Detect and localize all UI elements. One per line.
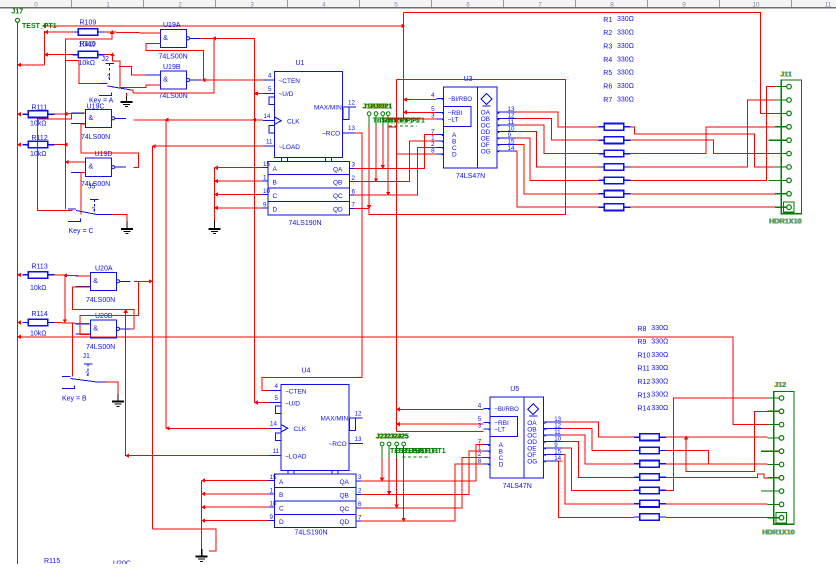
wire R109 R110 feed	[18, 64, 45, 66]
svg-text:R8: R8	[638, 326, 647, 333]
svg-text:J17: J17	[12, 9, 24, 16]
pin 1 B U1	[262, 180, 268, 182]
svg-text:3: 3	[431, 113, 435, 120]
svg-text:U3: U3	[464, 76, 473, 83]
svg-text:A: A	[273, 166, 278, 173]
wire U1 LOAD feed	[152, 145, 263, 147]
resistor R10	[634, 463, 639, 465]
wire QD U4 to D U5	[361, 464, 483, 521]
svg-text:10kΩ: 10kΩ	[30, 285, 47, 292]
svg-text:~LOAD: ~LOAD	[285, 453, 307, 460]
wire QB U4 to B U5	[361, 451, 483, 495]
wire OF to R6	[516, 144, 598, 193]
wire UD bus	[253, 38, 255, 402]
svg-text:10kΩ: 10kΩ	[30, 120, 47, 127]
svg-text:4: 4	[275, 383, 279, 390]
svg-text:~CTEN: ~CTEN	[279, 78, 301, 85]
wire key B common to ground	[106, 382, 118, 394]
ruler bar	[0, 0, 836, 7]
wire U19A out down loop	[133, 38, 214, 93]
svg-text:QA: QA	[333, 166, 343, 173]
wire R113 R114 link	[64, 275, 66, 322]
wire R13 to J12 pin9	[666, 503, 768, 505]
svg-text:U5: U5	[510, 386, 519, 393]
switch J5 Key=C	[90, 199, 98, 201]
wire R6 to J11 pin9	[631, 193, 776, 195]
svg-text:~RCO: ~RCO	[329, 441, 347, 448]
svg-text:74LS00N: 74LS00N	[159, 54, 188, 61]
wire U3 D feed	[397, 153, 437, 155]
wire R111 to U19C in1	[54, 113, 85, 114]
svg-text:R112: R112	[32, 135, 48, 142]
svg-text:&: &	[163, 77, 168, 84]
svg-text:QC: QC	[340, 506, 350, 513]
svg-text:R1: R1	[603, 17, 612, 24]
svg-text:TEST_PT1: TEST_PT1	[411, 448, 446, 455]
wire LOAD bus bottom	[152, 529, 216, 551]
svg-text:330Ω: 330Ω	[651, 325, 668, 332]
svg-text:R14: R14	[638, 406, 651, 413]
svg-text:R115: R115	[44, 558, 60, 564]
nand U20A	[90, 272, 116, 290]
svg-text:330Ω: 330Ω	[651, 405, 668, 412]
wire TEST_PT1 horizontal	[44, 25, 404, 27]
svg-text:J5: J5	[88, 184, 96, 191]
wire OA2 to R8	[563, 422, 634, 437]
resistor R7	[599, 206, 604, 208]
svg-text:?: ?	[107, 74, 111, 81]
nand U19B	[160, 71, 186, 89]
wire R5 to J11 pin1	[631, 87, 776, 181]
svg-text:10: 10	[270, 501, 277, 508]
wire R4 to J11 pin2	[631, 100, 776, 167]
wire test vertical to U3 pins	[403, 12, 405, 118]
wire left rail	[17, 31, 19, 564]
svg-text:&: &	[89, 115, 94, 122]
wire branch to J2 upper	[65, 59, 79, 61]
svg-text:330Ω: 330Ω	[617, 70, 634, 77]
pin 7 QD U4	[356, 520, 361, 522]
wire R2 to J11 pin6	[631, 140, 776, 153]
svg-text:OG: OG	[527, 459, 537, 466]
svg-text:330Ω: 330Ω	[617, 56, 634, 63]
svg-text:3: 3	[358, 474, 362, 481]
pin 14 CLK U4	[269, 427, 281, 429]
svg-text:R11: R11	[638, 366, 650, 373]
svg-text:~U/D: ~U/D	[279, 91, 294, 98]
wire switch column C	[64, 114, 66, 209]
svg-text:QD: QD	[340, 519, 350, 526]
wire U19B in1 feed	[119, 67, 145, 76]
resistor R9	[634, 450, 639, 452]
pin 15 A U4	[269, 479, 275, 481]
svg-text:D: D	[279, 519, 284, 526]
svg-text:74LS47N: 74LS47N	[503, 483, 532, 490]
wire R3 to J11 pin4	[631, 127, 776, 154]
pin 1 B U4	[269, 493, 275, 495]
pin 4 ~CTEN U4	[269, 390, 281, 392]
svg-text:10kΩ: 10kΩ	[79, 60, 96, 67]
pin 14 CLK U1	[263, 120, 275, 122]
pin 2 QB U4	[356, 493, 361, 495]
svg-text:−LT: −LT	[448, 116, 459, 123]
svg-text:R114: R114	[32, 311, 48, 318]
wire TP4 jog	[388, 126, 396, 128]
svg-text:QD: QD	[333, 207, 343, 214]
wire to U19D in1	[65, 161, 85, 163]
svg-text:R110: R110	[80, 41, 96, 48]
wire LOAD2 branch	[125, 309, 127, 455]
svg-text:5: 5	[268, 86, 272, 93]
wire OG2 to R14	[559, 461, 634, 518]
pin 7 QD U1	[350, 208, 355, 210]
svg-text:R4: R4	[603, 57, 612, 64]
ground key A	[125, 93, 127, 97]
wire QA U1 to A U3	[355, 135, 437, 169]
svg-text:B: B	[279, 492, 283, 499]
svg-text:330Ω: 330Ω	[617, 16, 634, 23]
wire U4 CLK feed	[166, 427, 269, 429]
pin 9 D U1	[262, 207, 268, 209]
wire OA to R1	[516, 112, 598, 127]
svg-text:330Ω: 330Ω	[651, 339, 668, 346]
resistor R3	[599, 153, 604, 155]
svg-text:U19C: U19C	[87, 103, 105, 110]
svg-text:HDR1X10: HDR1X10	[770, 217, 802, 226]
svg-text:Key = C: Key = C	[69, 228, 94, 235]
svg-text:4: 4	[478, 402, 482, 409]
svg-text:&: &	[89, 164, 94, 171]
svg-text:9: 9	[263, 201, 267, 208]
svg-text:R111: R111	[32, 105, 48, 112]
svg-text:J11: J11	[781, 72, 792, 79]
wire U20A out	[134, 280, 152, 282]
pin 10 C U1	[262, 194, 268, 196]
ground U1 bus	[214, 221, 216, 229]
resistor R114	[22, 322, 27, 324]
svg-text:74LS00N: 74LS00N	[86, 344, 115, 351]
svg-text:U1: U1	[296, 60, 305, 67]
svg-text:74LS190N: 74LS190N	[295, 530, 328, 537]
wire R12 to J12 pin1	[666, 398, 768, 491]
wire U3 LT feed	[387, 118, 437, 120]
wire U19B out to U1 CTEN	[201, 79, 263, 81]
wire rail to U5 BI/RBO RBI	[397, 408, 484, 410]
svg-text:U4: U4	[302, 368, 311, 375]
wire OC2 to R10	[563, 435, 634, 464]
resistor R112	[22, 144, 27, 146]
svg-text:12: 12	[355, 410, 362, 417]
svg-text:74LS190N: 74LS190N	[289, 220, 322, 227]
svg-text:&: &	[93, 325, 98, 332]
resistor R5	[599, 179, 604, 181]
svg-text:~CTEN: ~CTEN	[285, 388, 307, 395]
ground key C	[126, 221, 128, 229]
wire OE2 to R12	[563, 448, 634, 491]
nand U20B	[90, 320, 116, 338]
svg-text:?: ?	[85, 371, 89, 378]
pin 9 D U4	[269, 520, 275, 522]
wire U20A out cross to U20B in2	[80, 281, 139, 334]
svg-text:R7: R7	[603, 97, 612, 104]
svg-text:U19B: U19B	[163, 64, 181, 71]
svg-text:330Ω: 330Ω	[617, 83, 634, 90]
resistor R11	[634, 476, 639, 478]
wire OC to R3	[516, 125, 598, 154]
wire R1 to J11 pin7	[631, 127, 776, 167]
svg-text:10kΩ: 10kΩ	[30, 330, 47, 337]
wire R111 loop to key C	[38, 114, 73, 211]
nand U19D	[86, 158, 112, 176]
wire R114 to U20B in1	[54, 323, 90, 324]
wire U4 LOAD feed	[126, 455, 269, 457]
test point J17	[16, 18, 20, 22]
pin 4 ~CTEN U1	[263, 79, 275, 81]
pin 2 QB U1	[350, 181, 355, 183]
resistor R111	[22, 113, 27, 115]
pin 3 QA U1	[350, 167, 355, 169]
svg-text:R3: R3	[603, 44, 612, 51]
svg-text:9: 9	[270, 514, 274, 521]
svg-text:330Ω: 330Ω	[617, 96, 634, 103]
wire rail to R111 R112	[17, 112, 21, 116]
resistor R4	[599, 166, 604, 168]
svg-text:14: 14	[270, 421, 277, 428]
svg-text:5: 5	[275, 395, 279, 402]
pin 6 QC U4	[356, 507, 361, 509]
svg-text:A: A	[279, 479, 284, 486]
wire J2 upper contact	[79, 60, 99, 83]
wire R14 to J12 pin10	[666, 517, 768, 519]
pin 11 ~LOAD U4	[269, 455, 281, 457]
nand U19C	[86, 109, 112, 127]
svg-text:R5: R5	[603, 70, 612, 77]
svg-text:U19A: U19A	[163, 22, 181, 29]
svg-text:R13: R13	[638, 392, 651, 399]
wire U5 LT feed	[397, 431, 484, 433]
svg-text:−BI/RBO: −BI/RBO	[448, 96, 473, 103]
svg-text:R2: R2	[603, 30, 612, 37]
pin 15 A U1	[262, 167, 268, 169]
svg-text:C: C	[273, 193, 278, 200]
svg-text:~RCO: ~RCO	[322, 131, 340, 138]
ground U4 bus	[201, 549, 203, 557]
wire QC U4 to C U5	[361, 457, 483, 508]
wire OB2 to R9	[563, 429, 634, 451]
resistor R109	[73, 31, 78, 33]
svg-text:14: 14	[264, 113, 271, 120]
wire R113 to U20A in1	[54, 275, 90, 276]
svg-text:U20A: U20A	[95, 265, 113, 272]
svg-text:R9: R9	[638, 339, 647, 346]
svg-text:1: 1	[263, 175, 267, 182]
svg-text:HDR1X10: HDR1X10	[763, 528, 795, 537]
svg-text:330Ω: 330Ω	[651, 392, 668, 399]
wire OE to R5	[516, 138, 598, 181]
wire R7 to J11 pin10	[631, 206, 776, 208]
svg-text:QB: QB	[340, 492, 349, 499]
wire J2 common	[131, 90, 134, 93]
svg-text:−LT: −LT	[494, 426, 505, 433]
svg-text:74LS47N: 74LS47N	[456, 173, 485, 180]
wire R11 to J12 pin7	[666, 474, 768, 478]
wire R109 to U19A input	[105, 32, 161, 33]
svg-text:2: 2	[358, 488, 362, 495]
svg-text:4: 4	[431, 92, 435, 99]
wire OF2 to R13	[563, 455, 634, 505]
wire U3 RBI feed	[404, 111, 437, 113]
pin 6 QC U1	[350, 194, 355, 196]
svg-text:11: 11	[266, 139, 273, 146]
wire RCO U1 chain	[262, 133, 362, 391]
svg-text:7: 7	[358, 514, 362, 521]
wire top to J11 pin3	[404, 12, 776, 113]
svg-text:10kΩ: 10kΩ	[30, 151, 47, 158]
svg-text:J2: J2	[102, 56, 110, 63]
pin 11 ~LOAD U1	[263, 145, 275, 147]
svg-text:7: 7	[352, 202, 356, 209]
svg-text:U19D: U19D	[95, 151, 113, 158]
resistor R6	[599, 193, 604, 195]
svg-text:C: C	[279, 506, 284, 513]
svg-text:D: D	[273, 206, 278, 213]
svg-text:CLK: CLK	[294, 426, 307, 433]
wire U19B out to U19A in2 cross	[146, 44, 203, 81]
svg-text:?: ?	[92, 207, 96, 214]
resistor R1	[599, 126, 604, 128]
resistor R110	[73, 54, 78, 56]
wire U19D in2 from switch	[81, 172, 86, 214]
svg-text:3: 3	[352, 162, 356, 169]
wire U19D out loop to U19C in2	[81, 124, 138, 168]
wire R8 rail to J12 pin3	[18, 337, 768, 425]
svg-text:QC: QC	[333, 193, 343, 200]
svg-text:330Ω: 330Ω	[651, 378, 668, 385]
svg-text:13: 13	[355, 436, 362, 443]
svg-text:R6: R6	[603, 84, 612, 91]
wire U4 ABCD bus	[201, 480, 203, 549]
wire R109 down to key A chain	[65, 32, 112, 114]
wire TP stems bottom	[381, 446, 383, 458]
wire R110 chain to U19B in2	[105, 54, 113, 56]
pin 5 ~U/D U4	[269, 402, 281, 404]
wire OD2 to R11	[563, 442, 634, 478]
svg-text:15: 15	[263, 161, 270, 168]
svg-text:6: 6	[352, 188, 356, 195]
svg-text:J21: J21	[381, 103, 393, 110]
wire LOAD bus	[151, 146, 153, 529]
svg-text:12: 12	[348, 100, 355, 107]
ground key B	[117, 394, 119, 402]
pin 5 ~U/D U1	[263, 93, 275, 95]
svg-text:U20C: U20C	[113, 561, 131, 565]
wire U3 BI/RBO feed	[404, 99, 437, 101]
pin 3 QA U4	[356, 480, 361, 482]
svg-text:15: 15	[270, 474, 277, 481]
wire key C common to ground	[112, 215, 127, 222]
svg-text:CLK: CLK	[287, 118, 300, 125]
svg-text:74LS00N: 74LS00N	[86, 297, 115, 304]
resistor R113	[22, 274, 27, 276]
svg-text:OG: OG	[481, 148, 491, 155]
resistor R14	[634, 516, 639, 518]
svg-text:74LS00N: 74LS00N	[159, 93, 188, 100]
svg-text:U20B: U20B	[95, 313, 113, 320]
svg-text:2: 2	[352, 175, 356, 182]
svg-text:R12: R12	[638, 379, 651, 386]
svg-text:1: 1	[270, 487, 274, 494]
svg-text:&: &	[93, 278, 98, 285]
svg-text:B: B	[273, 180, 277, 187]
svg-text:R113: R113	[32, 263, 48, 270]
svg-text:13: 13	[348, 125, 355, 132]
test points J18 J19 J20 J21	[367, 112, 371, 116]
svg-text:330Ω: 330Ω	[651, 365, 668, 372]
pin 10 C U4	[269, 506, 275, 508]
svg-text:4: 4	[268, 73, 272, 80]
wire QA U4 to A U5	[361, 445, 483, 481]
wire R114 to key B contact	[71, 323, 73, 377]
svg-text:330Ω: 330Ω	[651, 352, 668, 359]
resistor R13	[634, 503, 639, 505]
svg-text:QB: QB	[333, 180, 342, 187]
svg-text:~U/D: ~U/D	[285, 400, 300, 407]
svg-text:8: 8	[431, 148, 435, 155]
wire OG to R7	[516, 151, 598, 207]
svg-text:D: D	[452, 152, 457, 159]
wire U4 UD feed	[254, 402, 269, 404]
svg-text:6: 6	[358, 501, 362, 508]
svg-text:MAX/MIN: MAX/MIN	[321, 415, 349, 422]
wire QB U1 to B U3	[355, 141, 437, 182]
wire U1 UD feed	[254, 93, 263, 95]
svg-text:&: &	[163, 35, 168, 42]
wire U19A out	[201, 37, 255, 39]
svg-text:74LS00N: 74LS00N	[81, 181, 110, 188]
svg-text:3: 3	[478, 423, 482, 430]
test points J22 J23 J24 J25	[380, 442, 384, 446]
wire mid vertical to U5	[396, 79, 398, 431]
wire QC U1 to C U3	[355, 147, 437, 195]
svg-text:J1: J1	[83, 353, 91, 360]
svg-text:MAX/MIN: MAX/MIN	[314, 105, 342, 112]
svg-text:~LOAD: ~LOAD	[279, 144, 301, 151]
svg-text:14: 14	[508, 145, 515, 152]
wire OB to R2	[516, 119, 598, 141]
svg-text:−BI/RBO: −BI/RBO	[494, 406, 519, 413]
wire TP stems	[368, 116, 370, 127]
wire QD U1 loop	[355, 79, 566, 214]
svg-text:D: D	[499, 462, 504, 469]
svg-text:TEST_PT1: TEST_PT1	[22, 23, 57, 30]
wire U1 ABCD bus	[214, 168, 216, 221]
wire U20B out loop to U20A in2	[72, 287, 134, 329]
svg-text:J25: J25	[397, 434, 409, 441]
svg-text:R10: R10	[638, 352, 651, 359]
svg-text:74LS00N: 74LS00N	[81, 134, 110, 141]
svg-text:10: 10	[263, 188, 270, 195]
wire U19C out clock line	[134, 119, 263, 121]
svg-text:11: 11	[273, 448, 280, 455]
svg-text:Key = B: Key = B	[62, 395, 87, 402]
svg-text:330Ω: 330Ω	[617, 43, 634, 50]
wire R8 to J12 pin4 and pin2	[666, 436, 768, 438]
svg-text:R109: R109	[80, 20, 97, 27]
svg-text:8: 8	[478, 458, 482, 465]
svg-text:QA: QA	[340, 479, 350, 486]
wire CLK bus	[165, 120, 167, 429]
resistor R12	[634, 489, 639, 491]
